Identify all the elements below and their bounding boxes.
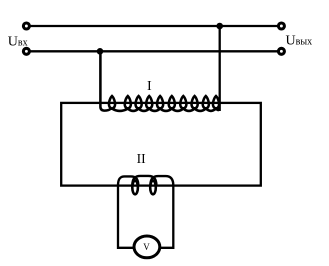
svg-text:Uвых: Uвых [286, 34, 313, 49]
wire winding II left down to voltmeter [118, 186, 135, 248]
junction dot A [97, 48, 104, 55]
core rectangle [61, 103, 261, 186]
terminal right top [278, 23, 284, 29]
svg-text:I: I [147, 79, 152, 94]
terminal left top [23, 23, 29, 29]
junction dot B [216, 23, 223, 30]
voltmeter V1 [134, 236, 160, 258]
terminal right bottom [278, 48, 284, 54]
svg-text:V: V [143, 242, 150, 252]
wire junction B down to winding I [219, 26, 221, 111]
wire top rail [30, 25, 278, 27]
svg-text:Uвх: Uвх [8, 35, 28, 50]
winding II hump 2 [132, 176, 156, 185]
winding II hump 3 [150, 176, 173, 185]
wire winding II right down to voltmeter [160, 186, 173, 248]
winding I with feed wire from junction A [100, 51, 219, 111]
terminal left bottom [23, 48, 29, 54]
winding II loop ring 1 [132, 181, 138, 195]
svg-text:II: II [137, 151, 146, 166]
winding II loop ring 2 [150, 181, 156, 195]
wire bottom rail [30, 50, 278, 52]
winding II hump 1 [118, 176, 138, 185]
